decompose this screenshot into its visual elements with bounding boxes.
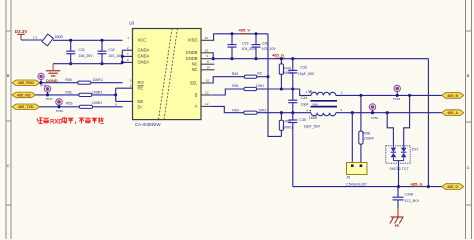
- svg-text:10KRJ: 10KRJ: [282, 125, 293, 129]
- svg-text:RE: RE: [138, 86, 144, 91]
- svg-text:NC: NC: [257, 72, 263, 76]
- port 485_TXD: [12, 104, 40, 110]
- wire D3.3V to L1: [21, 39, 42, 41]
- svg-text:6: 6: [115, 103, 117, 107]
- svg-text:11: 11: [206, 60, 209, 64]
- svg-text:3: 3: [341, 108, 343, 112]
- svg-text:7: 7: [127, 52, 129, 56]
- power net 485_G lower: [411, 182, 423, 187]
- wire 485_V vertical drop to R55: [268, 34, 281, 137]
- ferrite bead L1: [33, 34, 63, 46]
- svg-text:C35: C35: [299, 118, 306, 122]
- port 485_A: [442, 110, 464, 116]
- svg-text:U3: U3: [129, 21, 135, 26]
- wire choke to 485_A port: [336, 111, 442, 114]
- svg-text:D17: D17: [412, 148, 419, 152]
- capacitor C348: [393, 187, 420, 208]
- wire TVS left branch (A): [387, 113, 393, 146]
- svg-text:16: 16: [204, 36, 208, 40]
- wire RXD row: [40, 82, 78, 84]
- svg-text:4: 4: [130, 84, 132, 88]
- svg-text:475_10V: 475_10V: [262, 47, 277, 51]
- svg-text:C: C: [467, 165, 470, 170]
- svg-text:RO: RO: [138, 80, 144, 85]
- svg-text:VISO: VISO: [188, 38, 198, 43]
- wire R54 to choke: [257, 111, 311, 114]
- svg-text:R49: R49: [232, 72, 239, 76]
- svg-text:NC: NC: [192, 62, 198, 67]
- svg-text:10RJ: 10RJ: [258, 108, 267, 112]
- svg-text:3: 3: [130, 78, 132, 82]
- svg-text:100RJ: 100RJ: [92, 90, 102, 94]
- svg-text:C348: C348: [405, 193, 414, 197]
- wire TVS right branch (B): [404, 95, 410, 145]
- resistor R51: [232, 84, 264, 91]
- svg-text:10pF_50V: 10pF_50V: [304, 125, 321, 129]
- svg-text:GNDA: GNDA: [138, 48, 150, 53]
- node dots C32: [100, 39, 103, 42]
- svg-text:C29: C29: [242, 41, 249, 45]
- svg-text:C31: C31: [78, 48, 85, 52]
- wire GNDB pins to 485_G rail: [211, 53, 428, 60]
- svg-text:R54: R54: [232, 108, 239, 112]
- U3 left pin numbers: [115, 36, 132, 107]
- capacitor C34: [288, 89, 309, 113]
- ground DGND: [46, 64, 60, 83]
- wire 485_G bottom rail: [293, 186, 442, 188]
- svg-text:CA-IS3092W: CA-IS3092W: [135, 122, 161, 127]
- testpoint TP50: [369, 104, 378, 120]
- U3 right pin numbers: [204, 36, 210, 106]
- svg-text:1: 1: [127, 36, 129, 40]
- svg-text:D3.3V: D3.3V: [15, 29, 28, 34]
- svg-text:DI: DI: [138, 104, 142, 109]
- sheet border left: [6, 0, 11, 239]
- capacitor C30: [252, 34, 277, 59]
- svg-text:SM712.TCT: SM712.TCT: [390, 167, 410, 171]
- svg-text:TP48: TP48: [393, 97, 401, 101]
- U3 left pin names: [138, 38, 150, 110]
- svg-text:B: B: [195, 92, 198, 97]
- capacitor C33: [288, 57, 315, 89]
- resistor R50: [65, 78, 102, 84]
- U3 right pin names: [186, 38, 199, 109]
- svg-text:C34: C34: [301, 96, 308, 100]
- svg-text:10RJ: 10RJ: [256, 84, 265, 88]
- resistor R56: [359, 131, 375, 144]
- resistor R49: [232, 72, 263, 79]
- wire TVS center tap to 485_G rail: [397, 161, 400, 189]
- wire choke to 485_B port: [336, 94, 442, 97]
- svg-text:10pF: 10pF: [301, 103, 310, 107]
- wire B row from pin13: [211, 89, 244, 95]
- wire R51 to choke: [257, 87, 311, 95]
- svg-text:TP49: TP49: [56, 109, 64, 113]
- svg-text:R43: R43: [284, 66, 291, 70]
- svg-text:485_G: 485_G: [411, 182, 423, 187]
- svg-text:485_G: 485_G: [447, 185, 458, 189]
- svg-text:C33: C33: [300, 66, 307, 70]
- wire SEL row: [211, 77, 244, 83]
- wire R52 to RE/DE bracket: [92, 88, 133, 101]
- svg-text:485_V: 485_V: [239, 28, 251, 33]
- port 485_B: [442, 93, 464, 99]
- svg-text:12: 12: [205, 102, 209, 106]
- port 485_RXD: [12, 80, 40, 86]
- svg-text:B: B: [7, 73, 10, 78]
- svg-text:160R: 160R: [309, 116, 318, 120]
- wire A to J5 pin1: [351, 113, 353, 163]
- svg-text:14: 14: [206, 65, 210, 69]
- svg-text:120RF: 120RF: [363, 137, 374, 141]
- node dots C31: [69, 39, 72, 42]
- svg-text:600R: 600R: [55, 35, 64, 39]
- resistor R54: [232, 108, 266, 114]
- svg-text:8: 8: [127, 58, 129, 62]
- testpoint TP46: [38, 73, 47, 87]
- svg-text:5: 5: [115, 97, 117, 101]
- op-amp U3 body: [129, 21, 201, 128]
- U3 right pin stubs: [201, 40, 214, 106]
- svg-text:NC: NC: [192, 67, 198, 72]
- svg-text:2.54mm1x2P: 2.54mm1x2P: [346, 183, 368, 187]
- wire R50 to pin3: [91, 82, 123, 84]
- svg-text:R53: R53: [66, 101, 73, 105]
- power net 485_V: [239, 28, 251, 35]
- wire TXD row: [40, 106, 80, 108]
- svg-text:100RJ: 100RJ: [92, 101, 102, 105]
- svg-text:B: B: [467, 73, 470, 78]
- power port D3.3V: [15, 29, 28, 40]
- svg-text:10: 10: [206, 78, 210, 82]
- svg-text:GNDB: GNDB: [186, 56, 198, 61]
- svg-text:A: A: [195, 104, 198, 109]
- svg-text:R51: R51: [232, 84, 239, 88]
- svg-text:DE: DE: [138, 99, 144, 104]
- wire VISO to 485_V rail: [211, 34, 268, 41]
- svg-text:2: 2: [127, 46, 129, 50]
- svg-text:4: 4: [306, 109, 308, 113]
- svg-text:485_A: 485_A: [447, 111, 458, 115]
- svg-text:485_B: 485_B: [447, 94, 458, 98]
- svg-text:R50: R50: [65, 78, 72, 82]
- wire R56 to J5 pin2: [360, 144, 362, 162]
- inductor L6 common-mode choke: [305, 89, 342, 120]
- wire R53 to pin6: [93, 106, 123, 108]
- svg-text:2: 2: [341, 91, 343, 95]
- svg-text:C32: C32: [108, 48, 115, 52]
- svg-text:485_TXD: 485_TXD: [18, 105, 34, 109]
- power net 485_G upper: [272, 53, 285, 59]
- resistor R55: [279, 113, 293, 137]
- GNDA rail wire: [53, 50, 132, 64]
- wire A row from pin12: [211, 106, 243, 112]
- svg-text:106_25V: 106_25V: [78, 54, 93, 58]
- wire 485_G rail vertical right: [427, 59, 429, 187]
- svg-text:GNDB: GNDB: [186, 50, 198, 55]
- port 485_G: [442, 184, 464, 190]
- wire L1 to U3 pin1 (VCC rail): [53, 39, 123, 41]
- wire RD row: [36, 94, 79, 96]
- svg-text:PE: PE: [395, 224, 400, 228]
- svg-text:TP50: TP50: [371, 116, 379, 120]
- capacitor C32: [98, 40, 124, 63]
- ground PE: [390, 208, 404, 228]
- svg-text:GNDA: GNDA: [138, 54, 150, 59]
- svg-text:15: 15: [205, 48, 209, 52]
- svg-text:9: 9: [206, 54, 208, 58]
- svg-text:485_G: 485_G: [272, 53, 284, 58]
- capacitor C35: [288, 113, 320, 187]
- transistor D17 TVS array: [386, 146, 419, 171]
- sheet border right: [466, 0, 472, 239]
- svg-text:1: 1: [305, 90, 307, 94]
- svg-text:90%: 90%: [313, 103, 319, 107]
- svg-text:10pF_50V: 10pF_50V: [298, 72, 315, 76]
- capacitor C29: [228, 34, 257, 59]
- testpoint TP48: [393, 85, 401, 101]
- note chinese warning text: [37, 117, 104, 125]
- testpoint TP47: [44, 86, 53, 101]
- capacitor C31: [66, 40, 93, 63]
- svg-text:RXD: RXD: [50, 119, 63, 125]
- svg-text:J5: J5: [346, 176, 350, 180]
- svg-text:VCC: VCC: [138, 38, 147, 43]
- wire R49 to 485_V vertical: [257, 75, 270, 78]
- svg-text:R52: R52: [65, 90, 72, 94]
- wire B to R56: [360, 95, 362, 131]
- resistor R53: [66, 101, 102, 108]
- svg-text:13: 13: [205, 91, 209, 95]
- svg-text:TP47: TP47: [45, 97, 53, 101]
- svg-text:L1: L1: [33, 35, 37, 39]
- testpoint TP49: [56, 99, 64, 113]
- svg-text:C: C: [7, 163, 10, 168]
- resistor R52: [65, 90, 102, 96]
- svg-text:SEL: SEL: [190, 80, 198, 85]
- svg-text:472_3KV: 472_3KV: [405, 199, 420, 203]
- resistor R43: [279, 57, 293, 89]
- svg-text:GNDA: GNDA: [138, 60, 150, 65]
- connector J5: [346, 163, 368, 187]
- svg-text:100RJ: 100RJ: [92, 78, 102, 82]
- svg-text:R56: R56: [363, 131, 370, 135]
- svg-text:485_RXD: 485_RXD: [18, 81, 34, 85]
- port 485_RD: [12, 92, 36, 98]
- svg-text:485_RD: 485_RD: [17, 93, 31, 97]
